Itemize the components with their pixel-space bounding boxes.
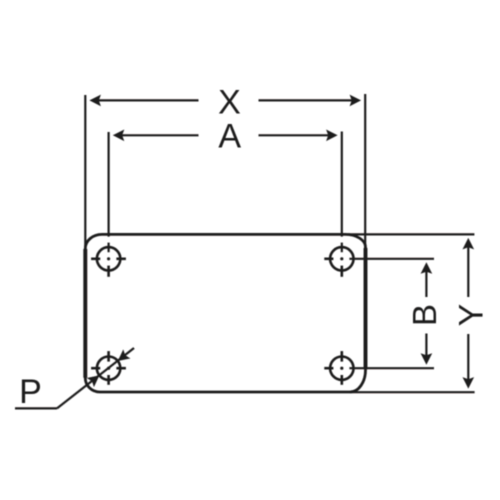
- arrow B up: [421, 262, 433, 274]
- arrow A left: [113, 130, 125, 142]
- plate outline: [85, 234, 365, 392]
- svg-text:Y: Y: [453, 304, 491, 327]
- X extension line right: [364, 94, 366, 248]
- dimension Y line: [348, 234, 475, 392]
- arrow A right: [326, 130, 338, 142]
- X extension line left: [84, 95, 86, 250]
- A extension line left: [107, 132, 109, 237]
- hole bottom-left: [91, 351, 126, 385]
- dimension X line: [85, 94, 365, 250]
- arrow X left: [89, 95, 101, 107]
- svg-text:B: B: [406, 304, 443, 326]
- hole top-left: [91, 247, 126, 277]
- P leader line: [15, 348, 134, 408]
- B extension bottom: [349, 367, 434, 369]
- svg-text:X: X: [218, 84, 241, 122]
- Y extension top (plate top edge extended): [348, 233, 474, 235]
- svg-text:A: A: [218, 118, 241, 156]
- arrow Y up: [463, 238, 475, 250]
- plate left edge thick: [83, 249, 87, 378]
- hole top-right: [324, 247, 353, 277]
- hole bottom-right: [324, 351, 353, 385]
- dimension B line: [349, 259, 434, 368]
- arrow P lower (points up-right at circle): [87, 375, 100, 387]
- arrow Y down: [463, 377, 475, 389]
- arrow P upper (points down-left at circle): [118, 349, 131, 361]
- Y extension bottom (plate bottom edge extended): [350, 391, 475, 393]
- svg-text:P: P: [19, 373, 42, 411]
- dimension A line: [109, 132, 342, 253]
- arrow X right: [350, 95, 362, 107]
- arrow B down: [421, 353, 433, 365]
- B extension top: [349, 258, 434, 260]
- A extension line right: [341, 132, 343, 237]
- plate right edge thick: [364, 248, 368, 369]
